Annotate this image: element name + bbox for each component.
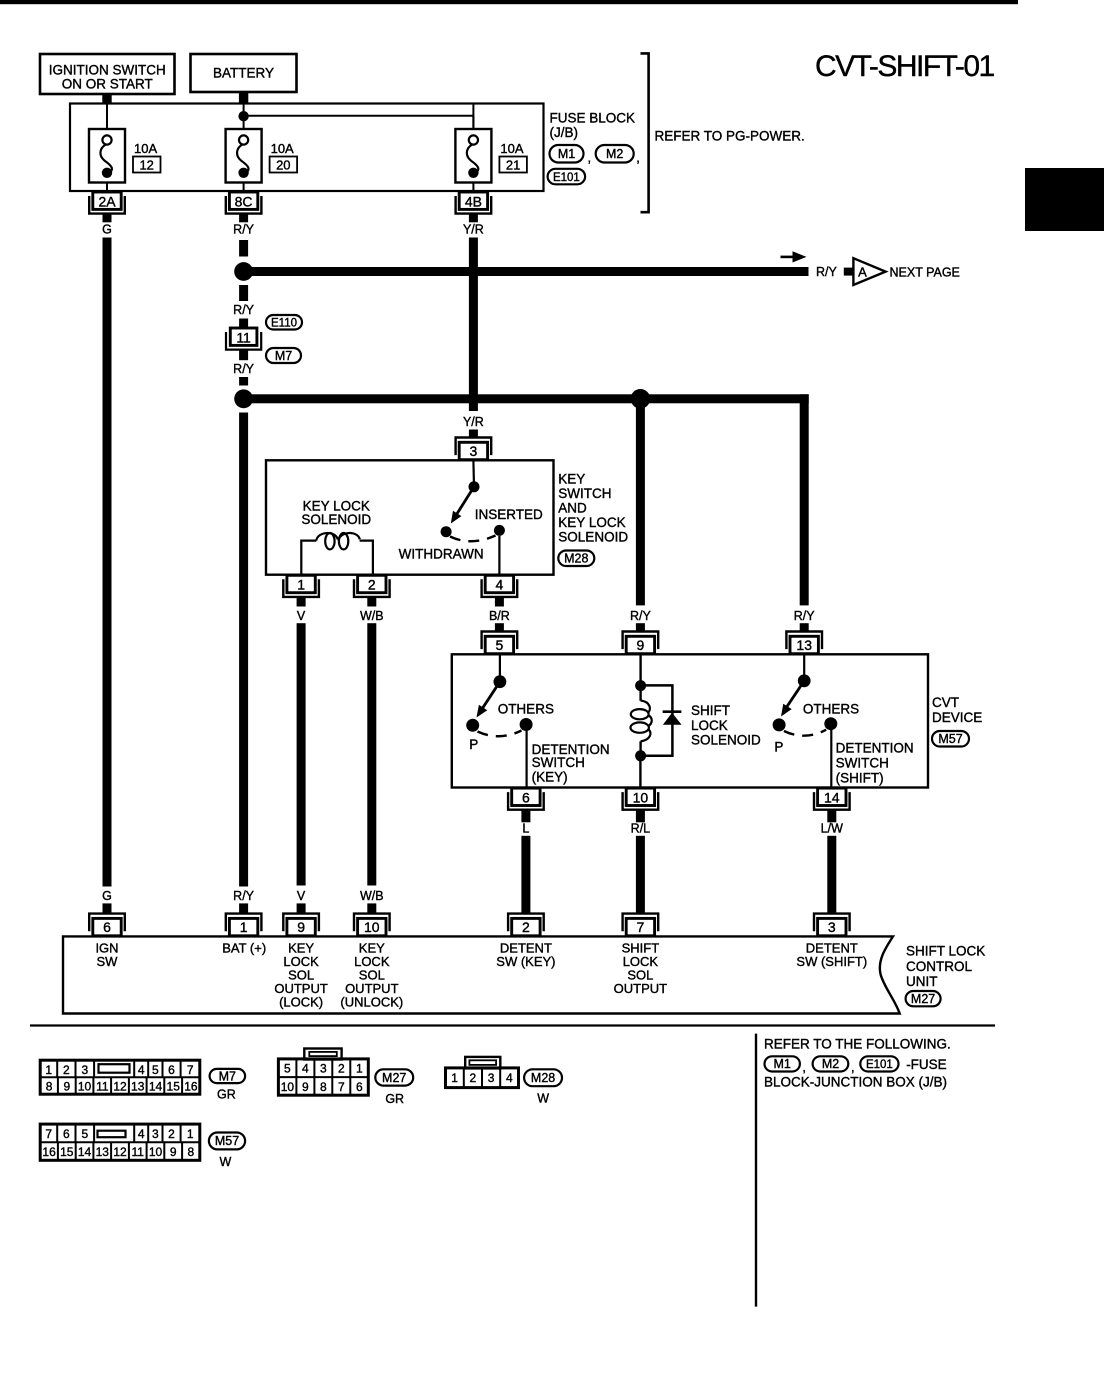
control unit terminal 1 xyxy=(226,914,262,936)
wire R/L shift lock sol xyxy=(636,836,645,915)
svg-text:INSERTED: INSERTED xyxy=(475,507,543,522)
svg-text:V: V xyxy=(297,889,306,903)
svg-text:2: 2 xyxy=(63,1063,70,1077)
svg-text:W/B: W/B xyxy=(360,889,384,903)
wire stub below 4B xyxy=(469,214,478,223)
key switch moving contact arm with arrow xyxy=(457,487,475,515)
connector terminal 2A xyxy=(89,192,125,214)
svg-text:3: 3 xyxy=(81,1063,88,1077)
svg-text:3: 3 xyxy=(320,1061,327,1075)
svg-text:FUSE BLOCK: FUSE BLOCK xyxy=(550,111,636,126)
connector ref M7 (footer) xyxy=(210,1069,246,1083)
wire stub above terminal 5 xyxy=(495,623,504,632)
svg-text:SOLENOID: SOLENOID xyxy=(691,733,761,748)
connector ref M1 xyxy=(550,145,584,163)
svg-text:SHIFT: SHIFT xyxy=(691,703,730,718)
fuse number box 21 (fuse 10A 21) xyxy=(499,157,527,173)
svg-text:BATTERY: BATTERY xyxy=(213,66,274,81)
wire inserted contact to terminal 4 xyxy=(498,536,500,575)
svg-text:KEY LOCK: KEY LOCK xyxy=(558,515,625,530)
bus wire R/Y to CVT device xyxy=(244,394,809,403)
svg-text:2A: 2A xyxy=(98,193,116,209)
svg-text:R/L: R/L xyxy=(631,822,651,836)
CVT device box M57 xyxy=(452,654,928,787)
svg-text:W/B: W/B xyxy=(360,609,384,623)
connector ref M7 (inline) xyxy=(266,348,301,363)
wire R/Y bus2 down to detention switch shift xyxy=(800,394,809,605)
svg-text:GR: GR xyxy=(217,1087,236,1101)
svg-text:M57: M57 xyxy=(215,1134,239,1148)
wire battery feed junction to fuse 21 xyxy=(244,115,474,117)
svg-text:4: 4 xyxy=(302,1061,309,1075)
svg-text:R/Y: R/Y xyxy=(233,889,255,903)
wire R/Y to shift lock solenoid xyxy=(636,403,645,605)
svg-text:1: 1 xyxy=(240,919,248,935)
svg-text:R/Y: R/Y xyxy=(816,265,838,279)
wire stub below terminal 6 xyxy=(521,810,530,822)
connector terminal 4B xyxy=(456,192,492,214)
svg-text:R/Y: R/Y xyxy=(233,303,255,317)
svg-text:WITHDRAWN: WITHDRAWN xyxy=(399,547,484,562)
wire stub below 2A xyxy=(103,214,112,223)
svg-text:G: G xyxy=(102,223,112,237)
shift lock solenoid top junction dot xyxy=(635,680,646,691)
wire stub below terminal 1 xyxy=(297,597,306,606)
wire L/W detent sw shift xyxy=(827,836,836,915)
svg-text:6: 6 xyxy=(168,1063,175,1077)
svg-text:B/R: B/R xyxy=(489,609,510,623)
detention switch (shift) moving arm with arrow xyxy=(786,681,804,708)
svg-text:CVT-SHIFT-01: CVT-SHIFT-01 xyxy=(815,50,995,83)
wire V key lock solenoid lock output xyxy=(297,623,306,885)
svg-text:12: 12 xyxy=(113,1080,127,1094)
svg-text:16: 16 xyxy=(184,1080,198,1094)
svg-text:7: 7 xyxy=(637,919,645,935)
svg-text:REFER TO PG-POWER.: REFER TO PG-POWER. xyxy=(655,129,805,144)
svg-text:6: 6 xyxy=(522,790,530,806)
svg-text:SOLENOID: SOLENOID xyxy=(301,512,371,527)
svg-text:5: 5 xyxy=(81,1127,88,1141)
wire stub below terminal 14 xyxy=(827,810,836,822)
wire stub above control unit pin 10 xyxy=(367,903,376,913)
svg-text:20: 20 xyxy=(276,157,290,172)
svg-text:6: 6 xyxy=(356,1080,363,1094)
wire stub above control unit pin 9 xyxy=(297,903,306,913)
fuse 10A 21 xyxy=(455,104,491,192)
svg-text:9: 9 xyxy=(170,1145,177,1159)
fuse 10A 20 xyxy=(226,104,262,192)
detention switch (shift) P contact dot xyxy=(773,718,786,731)
wire others contact to terminal 6 xyxy=(525,731,527,788)
right edge black tab xyxy=(1025,168,1104,231)
svg-text:12: 12 xyxy=(139,157,153,172)
connector terminal 10 (shift lock sol out) xyxy=(623,788,659,810)
detention switch (key) fixed contact from terminal 5 xyxy=(499,654,501,678)
svg-text:10: 10 xyxy=(633,790,649,806)
shift lock solenoid coil xyxy=(631,701,652,742)
svg-text:3: 3 xyxy=(488,1071,495,1085)
svg-text:OTHERS: OTHERS xyxy=(498,702,554,717)
svg-text:SW: SW xyxy=(97,954,119,969)
svg-text:(UNLOCK): (UNLOCK) xyxy=(340,994,403,1009)
diode (arrester) symbol xyxy=(663,710,682,713)
svg-text:UNIT: UNIT xyxy=(906,974,938,989)
svg-text:SWITCH: SWITCH xyxy=(532,755,585,770)
svg-text:10A: 10A xyxy=(134,141,157,156)
connector terminal 5 (detention switch key) xyxy=(482,632,518,654)
control unit terminal 3 xyxy=(814,914,850,936)
svg-text:SOLENOID: SOLENOID xyxy=(558,530,628,545)
withdrawn contact dot xyxy=(441,526,452,537)
connector terminal 8C xyxy=(226,192,262,214)
wire stub above control unit pin 1 xyxy=(239,903,248,913)
svg-text:4: 4 xyxy=(506,1071,513,1085)
control unit terminal 6 xyxy=(89,914,125,936)
wire R/Y dash 3 xyxy=(239,319,248,328)
svg-text:(KEY): (KEY) xyxy=(532,770,568,785)
direction arrow above bus xyxy=(781,256,796,259)
control unit terminal 2 xyxy=(508,914,544,936)
wire Y/R to key switch xyxy=(469,238,478,412)
connector M27 pin numbers xyxy=(281,1061,363,1094)
svg-text:M7: M7 xyxy=(275,349,292,363)
connector ref E110 xyxy=(266,315,302,330)
svg-text:1: 1 xyxy=(45,1063,52,1077)
svg-text:14: 14 xyxy=(78,1145,92,1159)
svg-text:4: 4 xyxy=(138,1127,145,1141)
svg-text:(LOCK): (LOCK) xyxy=(279,994,323,1009)
svg-text:13: 13 xyxy=(796,637,812,653)
svg-text:21: 21 xyxy=(506,157,520,172)
wire R/Y dash 2 xyxy=(239,285,248,301)
wire stub below 8C xyxy=(239,214,248,223)
svg-text:IGNITION SWITCH: IGNITION SWITCH xyxy=(49,63,166,78)
svg-text:SHIFT LOCK: SHIFT LOCK xyxy=(906,944,985,959)
control unit terminal 10 xyxy=(354,914,390,936)
wire stub above control unit pin 6 xyxy=(103,903,112,913)
svg-text:1: 1 xyxy=(451,1071,458,1085)
footer separator line xyxy=(30,1024,995,1026)
inline connector terminal 11 xyxy=(226,328,261,350)
bracket for fuse block refs xyxy=(641,53,649,212)
svg-text:AND: AND xyxy=(558,501,587,516)
svg-text:1: 1 xyxy=(187,1127,194,1141)
svg-text:GR: GR xyxy=(385,1092,404,1106)
svg-text:13: 13 xyxy=(131,1080,145,1094)
wire R/Y dash 4 xyxy=(239,377,248,386)
connector face view M7 xyxy=(40,1060,200,1094)
svg-text:7: 7 xyxy=(338,1080,345,1094)
svg-text:10: 10 xyxy=(281,1080,295,1094)
svg-text:10A: 10A xyxy=(500,141,523,156)
svg-text:11: 11 xyxy=(96,1080,109,1094)
page header bar xyxy=(0,0,1018,4)
svg-text:M28: M28 xyxy=(564,552,588,566)
svg-text:2: 2 xyxy=(368,577,376,593)
connector ref M27 xyxy=(906,991,941,1006)
detention switch (key) P contact dot xyxy=(466,719,479,732)
svg-text:SW (SHIFT): SW (SHIFT) xyxy=(796,954,867,969)
wire stub below terminal 2 xyxy=(367,597,376,606)
wire solenoid to terminal 10 xyxy=(639,756,641,787)
svg-text:,: , xyxy=(588,150,592,165)
svg-text:5: 5 xyxy=(152,1063,159,1077)
svg-text:1: 1 xyxy=(297,577,305,593)
detention switch (key) others contact dot xyxy=(520,718,533,731)
svg-text:11: 11 xyxy=(236,329,251,345)
wire L detent sw key xyxy=(521,836,530,915)
svg-text:10: 10 xyxy=(364,919,380,935)
svg-text:14: 14 xyxy=(824,790,840,806)
svg-text:12: 12 xyxy=(113,1145,127,1159)
connector ref E101 xyxy=(548,169,586,185)
detention switch (shift) fixed contact from terminal 13 xyxy=(803,654,805,677)
wire stub above terminal 3 xyxy=(469,430,478,438)
connector terminal 2 (key lock sol unlock) xyxy=(354,575,390,597)
wire stub below terminal 10 xyxy=(636,810,645,822)
connector terminal 3 (key switch) xyxy=(456,438,492,460)
svg-text:M27: M27 xyxy=(911,992,935,1006)
svg-text:7: 7 xyxy=(187,1063,194,1077)
svg-text:3: 3 xyxy=(470,443,478,459)
fuse 10A 12 xyxy=(89,104,125,192)
svg-text:2: 2 xyxy=(168,1127,175,1141)
svg-text:DEVICE: DEVICE xyxy=(932,710,982,725)
connector M28 pin numbers xyxy=(451,1071,513,1085)
wire W/B key lock solenoid unlock output xyxy=(367,623,376,885)
footer ref M2 xyxy=(813,1056,849,1071)
svg-text:16: 16 xyxy=(42,1145,56,1159)
key switch and key lock solenoid box M28 xyxy=(266,460,554,574)
connector ref M2 xyxy=(596,145,634,163)
svg-text:8: 8 xyxy=(188,1145,195,1159)
dashed travel arc (shift) xyxy=(784,730,826,736)
svg-text:L/W: L/W xyxy=(821,822,843,836)
svg-text:8C: 8C xyxy=(235,193,253,209)
svg-text:6: 6 xyxy=(103,919,111,935)
control unit pin function labels xyxy=(95,940,867,1009)
connector ref M27 (footer) xyxy=(375,1069,413,1085)
svg-text:BLOCK-JUNCTION BOX (J/B): BLOCK-JUNCTION BOX (J/B) xyxy=(764,1075,947,1090)
connector face view M57 xyxy=(40,1124,200,1160)
connector M7 pin numbers xyxy=(45,1063,198,1094)
svg-text:R/Y: R/Y xyxy=(630,609,652,623)
inserted contact dot xyxy=(494,525,505,536)
connector terminal 9 (shift lock solenoid) xyxy=(623,632,659,654)
ignition switch box xyxy=(40,54,175,94)
connector terminal 4 (key switch) xyxy=(482,575,518,597)
svg-text:KEY: KEY xyxy=(558,472,585,487)
svg-text:CONTROL: CONTROL xyxy=(906,959,972,974)
detention switch (key) moving arm with arrow xyxy=(482,682,500,709)
svg-text:14: 14 xyxy=(149,1080,163,1094)
svg-text:7: 7 xyxy=(45,1127,52,1141)
svg-text:M1: M1 xyxy=(558,147,575,161)
fuse number box 12 (fuse 10A 12) xyxy=(133,157,161,173)
svg-text:OUTPUT: OUTPUT xyxy=(614,981,668,996)
svg-text:E101: E101 xyxy=(553,172,580,184)
control unit terminal 7 xyxy=(623,914,659,936)
diode branch wiring xyxy=(641,685,673,755)
page link triangle A xyxy=(853,258,885,285)
svg-text:M2: M2 xyxy=(822,1057,839,1071)
svg-text:10: 10 xyxy=(78,1080,92,1094)
wire stub above terminal 9 xyxy=(636,623,645,632)
footer ref E101 xyxy=(860,1056,898,1071)
svg-text:SW (KEY): SW (KEY) xyxy=(496,954,555,969)
connector ref M28 xyxy=(558,551,594,567)
junction dot R/Y bus 2 xyxy=(234,389,253,408)
svg-text:NEXT PAGE: NEXT PAGE xyxy=(890,265,960,279)
svg-text:M27: M27 xyxy=(382,1071,406,1085)
wire stub below connector 11 xyxy=(239,350,248,360)
fuse block (J/B) outline xyxy=(70,104,544,192)
svg-text:15: 15 xyxy=(167,1080,181,1094)
wire battery to fuse block xyxy=(239,92,248,105)
svg-text:R/Y: R/Y xyxy=(794,609,816,623)
svg-text:M28: M28 xyxy=(531,1071,555,1085)
connector terminal 6 (detention switch key out) xyxy=(508,788,544,810)
svg-text:10: 10 xyxy=(149,1145,163,1159)
connector face view M27 xyxy=(278,1049,368,1096)
svg-text:W: W xyxy=(219,1155,231,1169)
svg-text:15: 15 xyxy=(60,1145,74,1159)
wire G ignition feed xyxy=(103,238,112,887)
svg-text:R/Y: R/Y xyxy=(233,223,255,237)
shift lock control unit box M27 xyxy=(63,936,900,1013)
svg-text:OTHERS: OTHERS xyxy=(803,702,859,717)
detention switch (shift) others contact dot xyxy=(824,717,837,730)
svg-text:BAT (+): BAT (+) xyxy=(222,940,266,955)
svg-text:R/Y: R/Y xyxy=(233,362,255,376)
svg-text:ON OR START: ON OR START xyxy=(62,77,153,92)
wire ignition switch to fuse block xyxy=(102,94,111,105)
key switch contact from terminal 3 xyxy=(472,460,475,482)
svg-text:,: , xyxy=(636,150,640,165)
connector terminal 13 (detention switch shift) xyxy=(786,632,822,654)
svg-text:P: P xyxy=(469,737,478,752)
connector face view M28 xyxy=(446,1057,519,1088)
svg-text:LOCK: LOCK xyxy=(691,718,728,733)
svg-text:3: 3 xyxy=(828,919,836,935)
svg-text:M57: M57 xyxy=(938,732,962,746)
svg-text:1: 1 xyxy=(356,1061,363,1075)
connector ref M57 (footer) xyxy=(209,1133,245,1150)
wire others contact to terminal 14 xyxy=(830,730,832,787)
svg-text:9: 9 xyxy=(63,1080,70,1094)
svg-text:5: 5 xyxy=(496,637,504,653)
svg-text:4: 4 xyxy=(138,1063,145,1077)
svg-text:8: 8 xyxy=(46,1080,53,1094)
connector M57 pin numbers xyxy=(42,1127,194,1159)
svg-text:M1: M1 xyxy=(774,1057,791,1071)
connector ref M57 xyxy=(932,731,969,747)
svg-text:6: 6 xyxy=(63,1127,70,1141)
junction dot battery feed xyxy=(238,111,248,121)
shift lock solenoid bottom junction dot xyxy=(635,750,646,761)
connector ref M28 (footer) xyxy=(524,1069,562,1086)
svg-text:-FUSE: -FUSE xyxy=(906,1057,947,1072)
svg-text:W: W xyxy=(537,1092,549,1106)
footer vertical divider xyxy=(755,1034,757,1307)
svg-text:REFER TO THE FOLLOWING.: REFER TO THE FOLLOWING. xyxy=(764,1036,951,1051)
svg-text:2: 2 xyxy=(338,1061,345,1075)
svg-text:V: V xyxy=(297,609,306,623)
svg-text:SWITCH: SWITCH xyxy=(836,756,889,771)
svg-text:11: 11 xyxy=(131,1145,144,1159)
svg-text:9: 9 xyxy=(302,1080,309,1094)
svg-text:8: 8 xyxy=(320,1080,327,1094)
shift lock solenoid wire from terminal 9 xyxy=(639,654,641,701)
connector terminal 1 (key lock sol lock) xyxy=(283,575,319,597)
svg-text:E110: E110 xyxy=(271,318,297,330)
wire R/Y dash 1 xyxy=(239,240,248,257)
svg-text:Y/R: Y/R xyxy=(463,223,484,237)
junction dot bus 2 to shift lock solenoid xyxy=(631,389,651,409)
svg-text:A: A xyxy=(858,264,867,279)
svg-text:L: L xyxy=(522,822,529,836)
svg-text:(SHIFT): (SHIFT) xyxy=(836,770,884,785)
svg-text:13: 13 xyxy=(96,1145,110,1159)
svg-text:4B: 4B xyxy=(465,193,482,209)
page link connector square xyxy=(844,268,853,276)
battery box xyxy=(191,54,297,92)
svg-text:Y/R: Y/R xyxy=(463,415,484,429)
wire stub above terminal 13 xyxy=(800,623,809,632)
control unit terminal 9 xyxy=(283,914,319,936)
svg-text:E101: E101 xyxy=(866,1059,893,1071)
svg-text:(J/B): (J/B) xyxy=(550,125,579,140)
svg-text:9: 9 xyxy=(637,637,645,653)
fuse number box 20 (fuse 10A 20) xyxy=(270,157,298,173)
svg-text:2: 2 xyxy=(470,1071,477,1085)
connector terminal 14 (detention switch shift out) xyxy=(814,788,850,810)
bus wire R/Y to next page xyxy=(244,267,809,276)
wire stub below terminal 4 xyxy=(495,597,504,606)
svg-text:M2: M2 xyxy=(606,147,623,161)
svg-text:10A: 10A xyxy=(271,141,294,156)
svg-text:P: P xyxy=(774,740,783,755)
svg-text:,: , xyxy=(802,1060,806,1075)
svg-text:4: 4 xyxy=(496,577,504,593)
svg-text:2: 2 xyxy=(522,919,530,935)
wire R/Y to BAT(+) xyxy=(239,413,248,887)
svg-text:G: G xyxy=(102,889,112,903)
key lock solenoid coil xyxy=(301,533,373,575)
junction dot R/Y bus 1 xyxy=(234,262,253,281)
svg-text:CVT: CVT xyxy=(932,695,959,710)
dashed travel arc withdrawn-inserted xyxy=(450,536,496,542)
dashed travel arc (key) xyxy=(478,731,522,737)
svg-text:M7: M7 xyxy=(219,1069,236,1083)
footer ref M1 xyxy=(765,1056,800,1071)
svg-text:DETENTION: DETENTION xyxy=(836,741,914,756)
svg-text:5: 5 xyxy=(284,1061,291,1075)
svg-text:3: 3 xyxy=(152,1127,159,1141)
svg-text:9: 9 xyxy=(297,919,305,935)
svg-text:,: , xyxy=(851,1060,855,1075)
svg-text:SWITCH: SWITCH xyxy=(558,486,611,501)
